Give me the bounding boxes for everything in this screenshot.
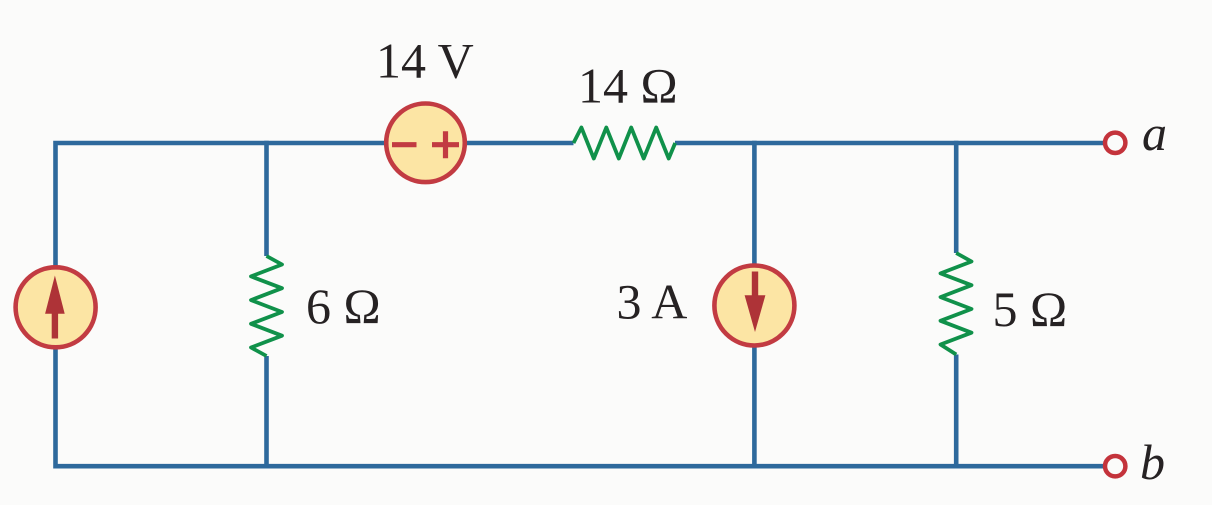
left source arrow stem [52, 311, 58, 339]
svg-text:5 Ω: 5 Ω [993, 281, 1068, 337]
current source (left, upward arrow) circle [16, 267, 96, 347]
svg-text:6 Ω: 6 Ω [306, 278, 381, 334]
wire: vertical branch of 6-ohm resistor (lower) [264, 356, 269, 469]
svg-text:3 A: 3 A [617, 274, 688, 330]
voltage source minus sign [392, 142, 417, 147]
svg-text:14 Ω: 14 Ω [578, 58, 678, 114]
voltage source 14 V (circle) [386, 104, 465, 183]
wire: vertical branch of 3 A source [752, 141, 757, 469]
3 A source arrow head [745, 295, 766, 332]
wire: vertical branch of 5-ohm resistor (lower) [954, 355, 959, 469]
current source 3 A (downward arrow) circle [714, 266, 794, 346]
wire: top rail right of 14-ohm resistor to terminal a [675, 141, 1105, 146]
voltage source plus sign [432, 131, 459, 158]
svg-text:b: b [1140, 434, 1165, 490]
resistor 6 ohm (vertical zigzag) [251, 256, 282, 356]
wire: vertical branch of 6-ohm resistor (upper) [264, 141, 269, 256]
terminal a circle [1105, 133, 1125, 153]
resistor 5 ohm (vertical zigzag) [941, 253, 972, 355]
svg-text:14 V: 14 V [376, 33, 474, 89]
3 A source arrow stem [752, 272, 758, 298]
resistor 14 ohm (horizontal zigzag) [574, 128, 676, 159]
svg-text:a: a [1142, 105, 1167, 161]
wire: outer loop top/left/bottom rails [56, 143, 1105, 466]
wire: vertical branch of 5-ohm resistor (upper) [954, 141, 959, 253]
terminal b circle [1105, 456, 1125, 476]
left source arrow head [45, 276, 65, 314]
